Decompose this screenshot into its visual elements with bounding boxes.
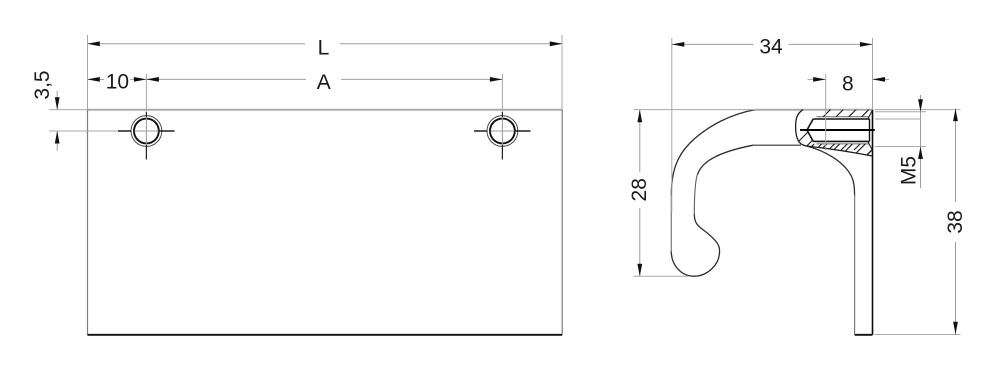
- hole 1 horizontal centerline: [118, 130, 132, 132]
- front plate left edge: [87, 110, 89, 335]
- svg-text:28: 28: [628, 178, 651, 201]
- dimension 3,5 line: [56, 91, 58, 110]
- dimension 34 line: [672, 43, 754, 45]
- extension line 28 top (top surface, left): [634, 109, 756, 111]
- svg-text:A: A: [317, 71, 331, 94]
- extension line M5 bottom: [875, 146, 926, 148]
- extension line hole axis left (for 3,5): [49, 130, 118, 132]
- flange underside line: [753, 144, 801, 146]
- extension line 34/8 right: [872, 38, 874, 110]
- extension line M5 top: [875, 111, 926, 113]
- svg-text:34: 34: [759, 36, 783, 59]
- extension line top edge left (for 3,5): [49, 109, 88, 111]
- extension line left edge (for L and 10): [87, 35, 89, 110]
- boss lower surface: [807, 146, 873, 156]
- extension line 38 top (to right): [875, 109, 961, 111]
- thread crest bottom (thin): [817, 143, 870, 145]
- leg bottom edge: [855, 334, 873, 336]
- svg-text:3,5: 3,5: [31, 70, 54, 99]
- leg inner sweep curve: [807, 146, 855, 196]
- front plate bottom edge: [88, 334, 563, 336]
- dimension 3,5 arrow bottom (outside, pointing up): [55, 131, 60, 144]
- dimension A arrow left: [146, 77, 159, 82]
- leg inner straight: [854, 195, 856, 335]
- dimension 10 arrow right: [134, 77, 147, 82]
- dimension 8 line left with arrow: [808, 78, 826, 80]
- thread core bottom (thick): [813, 140, 869, 142]
- thread opening chamfer bottom: [868, 142, 873, 151]
- thread opening chamfer top: [868, 110, 873, 119]
- hook inner sweep to underside: [698, 145, 754, 174]
- dimension 28 arrow bottom: [637, 264, 642, 277]
- hole 2 outer circle: [487, 116, 518, 147]
- extension line 34 left: [671, 38, 673, 212]
- extension line thread core (short): [875, 118, 921, 120]
- profile outer hook outline: [671, 110, 755, 196]
- extension line 38 bottom (to right): [875, 334, 961, 336]
- dimension A arrow right: [490, 77, 503, 82]
- thread end vertical: [869, 119, 871, 141]
- svg-text:8: 8: [842, 73, 854, 96]
- extension line 8 left: [825, 74, 827, 150]
- svg-text:10: 10: [106, 71, 129, 94]
- hook stem inner line: [694, 174, 697, 215]
- dimension M5 arrow bottom (outside, pointing up): [918, 147, 923, 160]
- svg-text:L: L: [318, 37, 330, 60]
- front plate top edge: [88, 109, 563, 111]
- hole 2 horizontal centerline: [474, 130, 488, 132]
- dimension 28 line: [639, 110, 641, 172]
- dimension 8 line right with arrow: [873, 78, 890, 80]
- hole 2 core circle: [490, 119, 515, 144]
- hole 1 outer circle (thread major dia): [131, 116, 162, 147]
- thread centerline: [800, 129, 875, 131]
- boss nose outline: [796, 110, 807, 146]
- dimension 34 arrow right: [860, 42, 873, 47]
- dimension 28 arrow top: [637, 110, 642, 123]
- dimension L arrow left: [87, 41, 100, 46]
- dimension 10 line right: [130, 78, 146, 80]
- hook bottom curl: [671, 214, 719, 276]
- dimension 10 arrow left: [87, 77, 100, 82]
- drill cone: [807, 119, 813, 141]
- extension line 28 bottom (hook bottom): [634, 275, 689, 277]
- dimension 38 arrow bottom: [953, 322, 958, 335]
- dimension M5 arrow top (outside, pointing down): [918, 99, 923, 112]
- thread core top (thick): [813, 118, 869, 120]
- hole 1 vertical centerline / extension: [145, 74, 147, 112]
- dimension 10 line: [88, 78, 104, 80]
- profile top edge (gray, also extension span): [756, 109, 873, 111]
- right edge of profile: [872, 110, 874, 335]
- extension line right edge (for L): [561, 35, 563, 110]
- dimension 3,5 arrow top (outside, pointing down): [55, 97, 60, 110]
- dimension A line: [146, 78, 306, 80]
- hatching (cut material): [790, 105, 912, 163]
- hole 2 vertical centerline / extension: [501, 74, 503, 112]
- dimension 38 line: [955, 109, 957, 203]
- svg-text:M5: M5: [898, 156, 921, 185]
- thread crest top (thin): [817, 116, 870, 118]
- dimension 34 arrow left: [672, 42, 685, 47]
- front plate right edge: [561, 110, 563, 335]
- dimension M5 line: [920, 95, 922, 188]
- hook stem outer straight: [670, 195, 672, 252]
- dimension L line: [88, 43, 305, 45]
- svg-text:38: 38: [944, 210, 967, 233]
- hole 1 core circle: [134, 119, 159, 144]
- dimension L arrow right: [550, 41, 563, 46]
- dimension 38 arrow top: [953, 109, 958, 122]
